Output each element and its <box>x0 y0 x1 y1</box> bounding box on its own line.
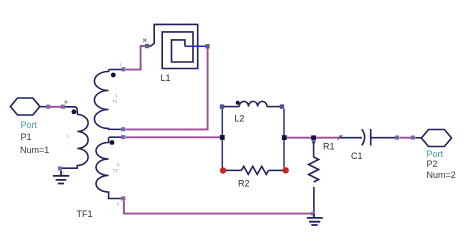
svg-text:TF1: TF1 <box>77 209 93 219</box>
svg-text:2: 2 <box>117 162 120 167</box>
svg-text:L2: L2 <box>234 114 244 124</box>
svg-text:L1: L1 <box>161 73 171 83</box>
svg-text:T1: T1 <box>112 99 118 104</box>
svg-text:R1: R1 <box>323 142 335 152</box>
svg-text:2: 2 <box>117 202 120 207</box>
svg-text:R2: R2 <box>238 179 250 189</box>
svg-text:1: 1 <box>63 171 66 176</box>
svg-text:1: 1 <box>115 93 118 98</box>
svg-text:1: 1 <box>119 62 122 67</box>
svg-text:1: 1 <box>67 134 70 139</box>
svg-text:T2: T2 <box>113 168 119 173</box>
svg-text:C1: C1 <box>351 151 363 161</box>
